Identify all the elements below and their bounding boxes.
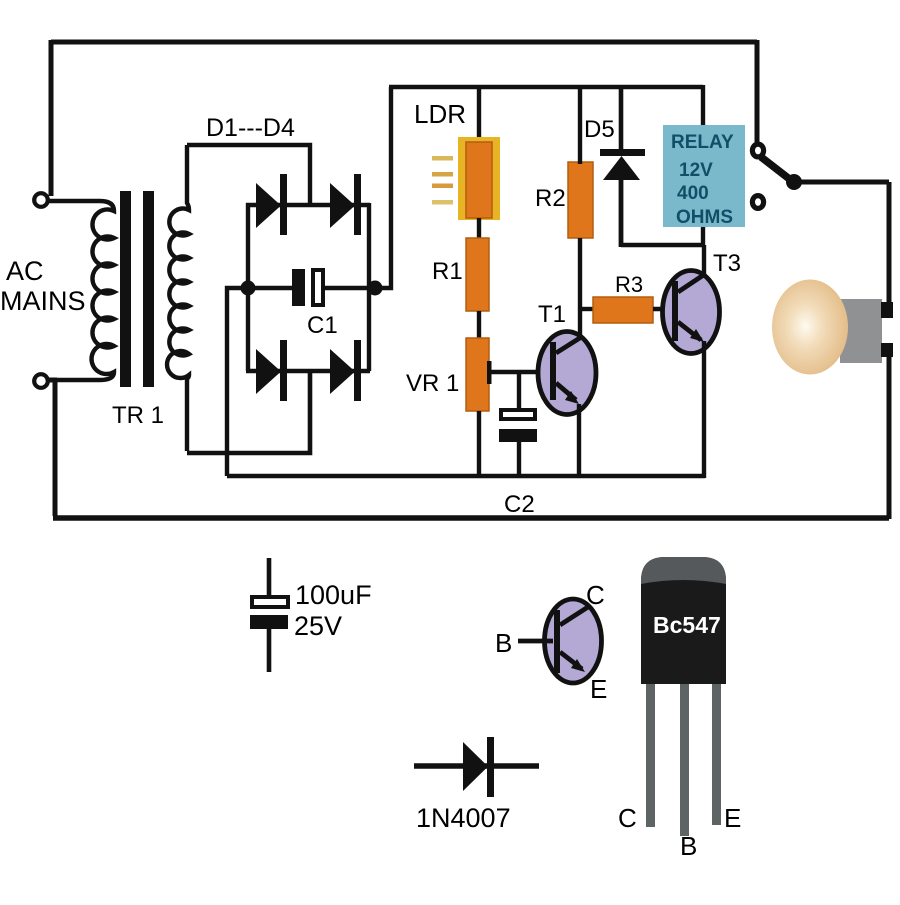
wire D5 to relay bottom [621, 243, 705, 247]
terminal upper AC [34, 193, 48, 207]
legend transistor symbol [518, 599, 602, 683]
node bridge positive [368, 281, 383, 296]
svg-text:400: 400 [677, 183, 709, 204]
wire T1 base to C2 [517, 372, 521, 411]
wire T1 collector to R3 [580, 307, 595, 311]
wire LDR to R1 [477, 218, 481, 240]
lamp bulb [772, 280, 848, 375]
svg-text:E: E [724, 803, 741, 833]
wire positive node to top rail riser [375, 87, 391, 288]
wire T3 collector to relay [702, 245, 706, 276]
switch contact lower [752, 196, 763, 209]
resistor R3 [593, 297, 653, 323]
node bridge negative [241, 281, 256, 296]
svg-text:RELAY: RELAY [671, 132, 734, 153]
wire bridge mid rail [248, 286, 375, 290]
wire rail end into relay [701, 85, 705, 126]
legend Bc547 package body [641, 557, 726, 684]
wire VR1 wiper to T1 base [491, 370, 551, 374]
wire bridge upper diode row [246, 203, 370, 207]
resistor R1 [466, 238, 489, 311]
switch lever [761, 157, 802, 190]
wire relay bottom pin [701, 227, 705, 247]
wire outer right drop to switch [755, 40, 760, 143]
svg-text:C: C [618, 803, 637, 833]
legend capacitor 100uF [250, 558, 288, 672]
wire outer top border [51, 40, 757, 45]
svg-text:T1: T1 [538, 301, 566, 328]
wire switch to right border [793, 180, 889, 185]
wire R3 to T3 base [653, 307, 674, 311]
svg-text:OHMS: OHMS [676, 207, 733, 228]
diode D2 [330, 174, 361, 235]
potentiometer VR1 [466, 338, 492, 411]
LDR light dashes [432, 156, 453, 205]
relay coil box [663, 125, 745, 227]
wire outer right border lower segment [887, 357, 892, 519]
diode D3 [256, 340, 287, 401]
svg-text:Bc547: Bc547 [653, 612, 721, 638]
label RELAY 12V 400 OHMS [671, 132, 734, 228]
wire T3 emitter to ground rail [702, 341, 706, 478]
switch contact upper [752, 144, 763, 157]
svg-text:C: C [586, 580, 605, 610]
wire bridge right side [367, 203, 371, 371]
svg-text:VR 1: VR 1 [406, 370, 459, 397]
capacitor C2 [499, 410, 537, 442]
svg-text:R3: R3 [615, 272, 643, 297]
label C B E package [618, 803, 741, 861]
transistor T3 [663, 271, 720, 354]
resistor R2 [568, 162, 593, 238]
svg-text:B: B [495, 628, 512, 658]
wire lower terminal to bottom border [47, 380, 57, 516]
wire ground rail [227, 474, 705, 478]
terminal lower AC [34, 374, 48, 388]
capacitor C1 [292, 269, 323, 306]
svg-text:12V: 12V [679, 160, 713, 181]
wire inner top rail [389, 85, 703, 89]
transformer TR1 core bars [120, 191, 131, 387]
svg-text:LDR: LDR [414, 99, 466, 129]
wire negative node to ground rail [227, 288, 248, 476]
transformer TR1 primary winding [48, 201, 114, 380]
wire T1 emitter to ground rail [577, 404, 581, 476]
wire outer right border upper segment [887, 182, 892, 305]
lamp terminal tabs [881, 302, 893, 357]
wire outer bottom border [53, 515, 889, 521]
svg-text:C1: C1 [307, 312, 338, 339]
svg-text:D1---D4: D1---D4 [206, 114, 295, 142]
svg-text:AC: AC [6, 256, 44, 286]
svg-text:C2: C2 [504, 491, 535, 518]
svg-text:R2: R2 [535, 185, 566, 212]
svg-text:TR 1: TR 1 [112, 402, 164, 429]
svg-text:1N4007: 1N4007 [416, 803, 511, 833]
svg-text:MAINS: MAINS [0, 286, 86, 316]
wire bridge bottom AC [187, 371, 310, 453]
wire R2 to T1 collector [578, 238, 582, 335]
lamp base [840, 299, 882, 363]
svg-text:R1: R1 [432, 258, 463, 285]
label 100uF 25V [294, 580, 372, 641]
legend Bc547 leads [646, 684, 721, 836]
svg-text:T3: T3 [713, 250, 741, 277]
wire bridge top AC [187, 145, 310, 205]
label AC MAINS [0, 256, 86, 316]
wire bridge left side [246, 203, 250, 371]
wire rail to LDR [477, 87, 481, 145]
transistor T1 [538, 332, 596, 415]
diode D1 [256, 174, 287, 235]
wire VR1 to ground rail [477, 411, 481, 476]
wire C2 to ground rail [517, 442, 521, 476]
wire R1 to VR1 [477, 311, 481, 340]
svg-text:E: E [590, 674, 607, 704]
LDR body [458, 137, 500, 220]
diode D5 [600, 87, 645, 247]
svg-text:100uF: 100uF [295, 580, 372, 610]
diode D4 [330, 340, 361, 401]
wire bridge lower diode row [246, 369, 370, 373]
label B C E symbol [495, 580, 607, 704]
svg-text:B: B [680, 831, 697, 861]
legend diode 1N4007 [414, 737, 539, 797]
transformer TR1 secondary winding [167, 145, 189, 451]
wire outer left vertical to upper terminal [49, 40, 54, 196]
svg-text:D5: D5 [584, 116, 615, 143]
svg-text:25V: 25V [294, 611, 342, 641]
wire rail to R2 [578, 87, 582, 164]
